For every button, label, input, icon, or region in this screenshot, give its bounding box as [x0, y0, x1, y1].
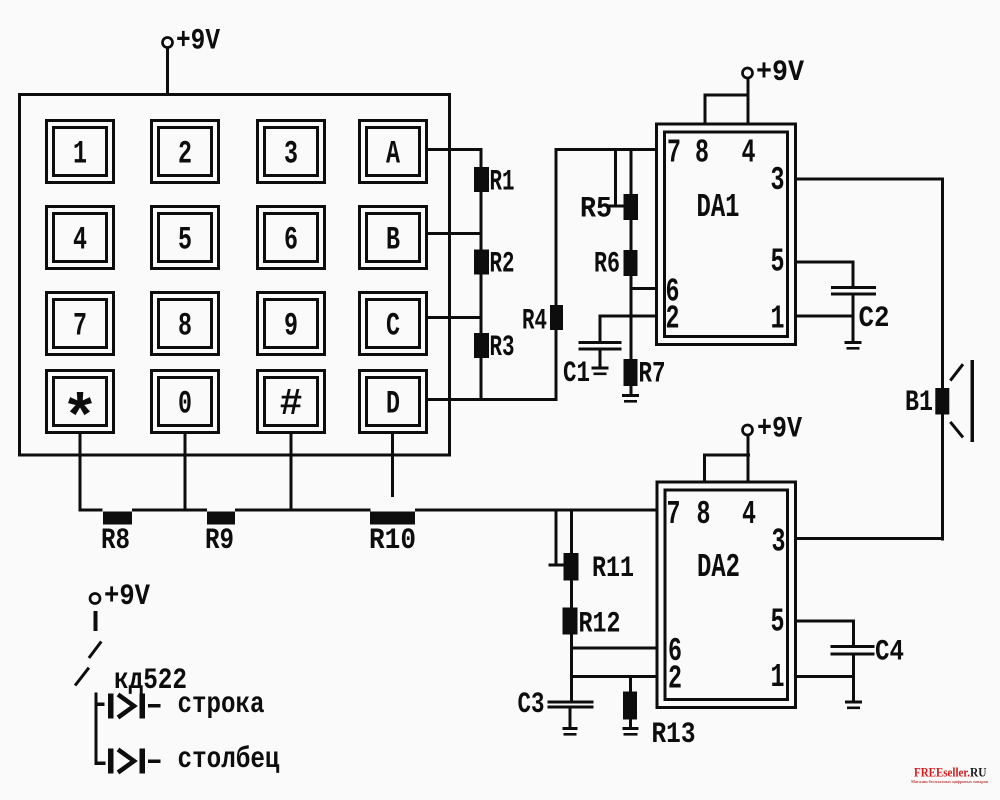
- svg-text:R11: R11: [592, 552, 634, 586]
- capacitor C2: [831, 286, 876, 289]
- wire bottom bus segment 1: [79, 509, 103, 512]
- power +9V terminal (DA1): [743, 68, 753, 78]
- keypad button 3: [258, 121, 325, 183]
- wire legend stub: [94, 611, 98, 631]
- svg-text:3: 3: [284, 135, 298, 172]
- svg-text:R1: R1: [490, 166, 515, 200]
- svg-text:R4: R4: [522, 305, 547, 339]
- wire R12 down to C3: [570, 635, 573, 701]
- svg-text:R9: R9: [205, 524, 234, 558]
- keypad button A: [360, 121, 427, 183]
- svg-text:0: 0: [178, 385, 192, 422]
- svg-text:7: 7: [667, 135, 681, 172]
- resistor R1: [474, 167, 489, 192]
- svg-text:2: 2: [666, 301, 680, 338]
- svg-text:Магазин бесплатных цифровых то: Магазин бесплатных цифровых товаров: [911, 779, 989, 784]
- svg-text:5: 5: [771, 604, 785, 641]
- svg-text:столбец: столбец: [178, 743, 280, 777]
- svg-text:C1: C1: [563, 357, 590, 391]
- svg-text:4: 4: [73, 221, 87, 258]
- svg-text:D: D: [386, 385, 400, 422]
- svg-text:2: 2: [668, 661, 682, 698]
- power +9V terminal (legend): [90, 594, 100, 604]
- keypad button 7: [47, 293, 114, 355]
- capacitor C4: [831, 645, 875, 648]
- wire pin5 to C2: [852, 262, 855, 287]
- svg-text:B: B: [386, 221, 400, 258]
- wire column 3 drop: [290, 434, 293, 510]
- svg-text:R7: R7: [639, 358, 666, 392]
- wire column 4 drop: [391, 434, 394, 497]
- wire DA1 pin 6: [630, 287, 657, 290]
- wire row B stub: [428, 232, 483, 235]
- svg-text:8: 8: [697, 496, 711, 533]
- wire pin2 to R13: [629, 676, 632, 692]
- wire +9V to DA2 pins 8,4: [747, 435, 750, 483]
- ground (C4): [845, 701, 862, 704]
- resistor R4: [550, 305, 563, 330]
- svg-text:R12: R12: [579, 608, 621, 642]
- wire row A stub: [428, 148, 483, 151]
- resistor R11: [564, 553, 579, 581]
- power +9V terminal (DA2): [743, 425, 753, 435]
- timer DA2 outer box: [657, 482, 796, 708]
- wire pin2 to C1: [599, 316, 602, 341]
- wire R11 to R12: [570, 581, 573, 608]
- wire DA2 pin 3 output: [796, 537, 944, 540]
- wire R1-R3 chain vertical: [480, 148, 483, 401]
- keypad button 6: [258, 207, 325, 269]
- svg-text:R8: R8: [101, 524, 130, 558]
- svg-text:8: 8: [695, 135, 709, 172]
- resistor R12: [563, 608, 578, 635]
- keypad button 1: [47, 121, 114, 183]
- resistor R7: [624, 359, 638, 386]
- legend arrow stroke 1: [89, 642, 101, 659]
- svg-text:RU: RU: [970, 766, 987, 780]
- keypad button 9: [258, 293, 325, 355]
- keypad button B: [360, 207, 427, 269]
- svg-text:+9V: +9V: [757, 413, 802, 447]
- keypad button 5: [152, 207, 219, 269]
- wire R6 down to R7: [630, 276, 633, 359]
- svg-text:C2: C2: [859, 302, 890, 336]
- wire row D stub to R4 branch: [428, 398, 558, 401]
- keypad button 8: [152, 293, 219, 355]
- resistor R10: [370, 512, 415, 525]
- wire column 2 drop: [184, 434, 187, 510]
- resistor R13: [623, 692, 637, 720]
- svg-text:R13: R13: [652, 718, 696, 752]
- wire +9V to keypad box: [166, 48, 169, 95]
- svg-text:9: 9: [284, 307, 298, 344]
- wire DA2 pin 2: [570, 675, 657, 678]
- capacitor C3: [548, 701, 594, 704]
- keypad button C: [360, 293, 427, 355]
- timer DA1 inner box: [665, 132, 788, 337]
- keypad button D: [360, 371, 427, 433]
- ground (C1): [592, 367, 609, 370]
- svg-text:1: 1: [771, 659, 785, 696]
- keypad button 2: [152, 121, 219, 183]
- resistor R6: [624, 250, 638, 276]
- wire R5 feeder drop: [614, 150, 617, 205]
- wire DA2 pin 1: [796, 675, 855, 678]
- resistor R8: [103, 512, 132, 525]
- wire DA1 out to B1 to DA2 out: [941, 178, 944, 541]
- wire DA1 pin 5: [796, 261, 855, 264]
- wire R4 branch vertical: [555, 148, 558, 401]
- wire DA2 pin 5: [796, 620, 855, 623]
- svg-text:R10: R10: [369, 524, 416, 558]
- svg-text:+9V: +9V: [104, 580, 150, 614]
- svg-text:R5: R5: [580, 193, 612, 227]
- svg-text:C3: C3: [518, 688, 545, 722]
- wire DA1 pin 1: [796, 315, 853, 318]
- svg-text:1: 1: [771, 301, 785, 338]
- resistor R5: [624, 194, 639, 220]
- wire bottom bus segment 2: [132, 509, 207, 512]
- legend arrow stroke 2: [75, 668, 89, 686]
- svg-text:B1: B1: [905, 386, 933, 420]
- svg-text:FREEseller.: FREEseller.: [914, 766, 970, 780]
- svg-text:6: 6: [284, 221, 298, 258]
- svg-text:5: 5: [771, 244, 785, 281]
- wire bottom bus segment 3: [235, 509, 371, 512]
- svg-text:строка: строка: [178, 688, 265, 722]
- svg-text:R3: R3: [490, 331, 515, 365]
- wire DA2 pin 6: [570, 647, 657, 650]
- diode symbol (column): [108, 749, 114, 774]
- svg-text:DA2: DA2: [697, 549, 740, 586]
- svg-text:R2: R2: [490, 248, 515, 282]
- svg-text:5: 5: [178, 221, 192, 258]
- capacitor C1: [579, 341, 622, 344]
- wire bus drop 1 with tick: [555, 511, 558, 566]
- svg-text:4: 4: [742, 135, 756, 172]
- wire bottom bus segment 4 to DA2 pin 7: [415, 509, 657, 512]
- resistor R9: [207, 512, 235, 525]
- svg-text:1: 1: [73, 135, 87, 172]
- op-amp/timer DA1 outer box: [657, 124, 796, 345]
- wire pin5 to C4: [852, 621, 855, 645]
- timer DA2 inner box: [665, 490, 788, 700]
- wire R5 to R6: [630, 220, 633, 250]
- svg-text:3: 3: [771, 162, 785, 199]
- wire DA1 pin 3 output: [796, 178, 944, 181]
- wire DA1 pin 7 feed: [555, 148, 657, 151]
- svg-text:8: 8: [178, 307, 192, 344]
- svg-text:+9V: +9V: [756, 56, 804, 90]
- keypad button star: [47, 371, 114, 433]
- wire DA1 pin 2: [599, 315, 657, 318]
- wire bus drop to R11: [570, 511, 573, 553]
- speaker B1: [935, 388, 949, 415]
- keypad button 0: [152, 371, 219, 433]
- diode symbol (row): [108, 694, 114, 719]
- keypad matrix outer box: [20, 95, 450, 456]
- svg-text:+9V: +9V: [176, 25, 220, 59]
- svg-text:#: #: [280, 383, 303, 426]
- resistor R3: [474, 333, 489, 358]
- svg-text:4: 4: [742, 496, 756, 533]
- keypad button hash: [258, 371, 325, 433]
- ground (C3): [563, 727, 578, 730]
- svg-text:3: 3: [772, 524, 786, 561]
- svg-text:2: 2: [178, 135, 192, 172]
- svg-text:кд522: кд522: [114, 664, 187, 698]
- svg-text:C: C: [386, 307, 400, 344]
- ground (C2): [845, 341, 862, 344]
- svg-text:7: 7: [73, 307, 87, 344]
- svg-text:7: 7: [667, 496, 681, 533]
- wire to R5 top: [630, 150, 633, 194]
- power +9V terminal (keypad): [163, 38, 173, 48]
- svg-text:DA1: DA1: [697, 189, 740, 226]
- wire R5 feeder tick: [609, 205, 625, 208]
- svg-text:R6: R6: [594, 248, 620, 282]
- svg-text:A: A: [386, 135, 401, 172]
- legend bracket: [95, 693, 98, 766]
- wire row C stub: [428, 316, 483, 319]
- wire +9V to DA1 pins 8,4: [747, 78, 750, 124]
- keypad button 4: [47, 207, 114, 269]
- resistor R2: [474, 250, 489, 275]
- ground (R13): [623, 727, 639, 730]
- ground (R7): [622, 394, 639, 397]
- svg-text:C4: C4: [875, 636, 904, 670]
- wire column 1 drop: [79, 434, 82, 510]
